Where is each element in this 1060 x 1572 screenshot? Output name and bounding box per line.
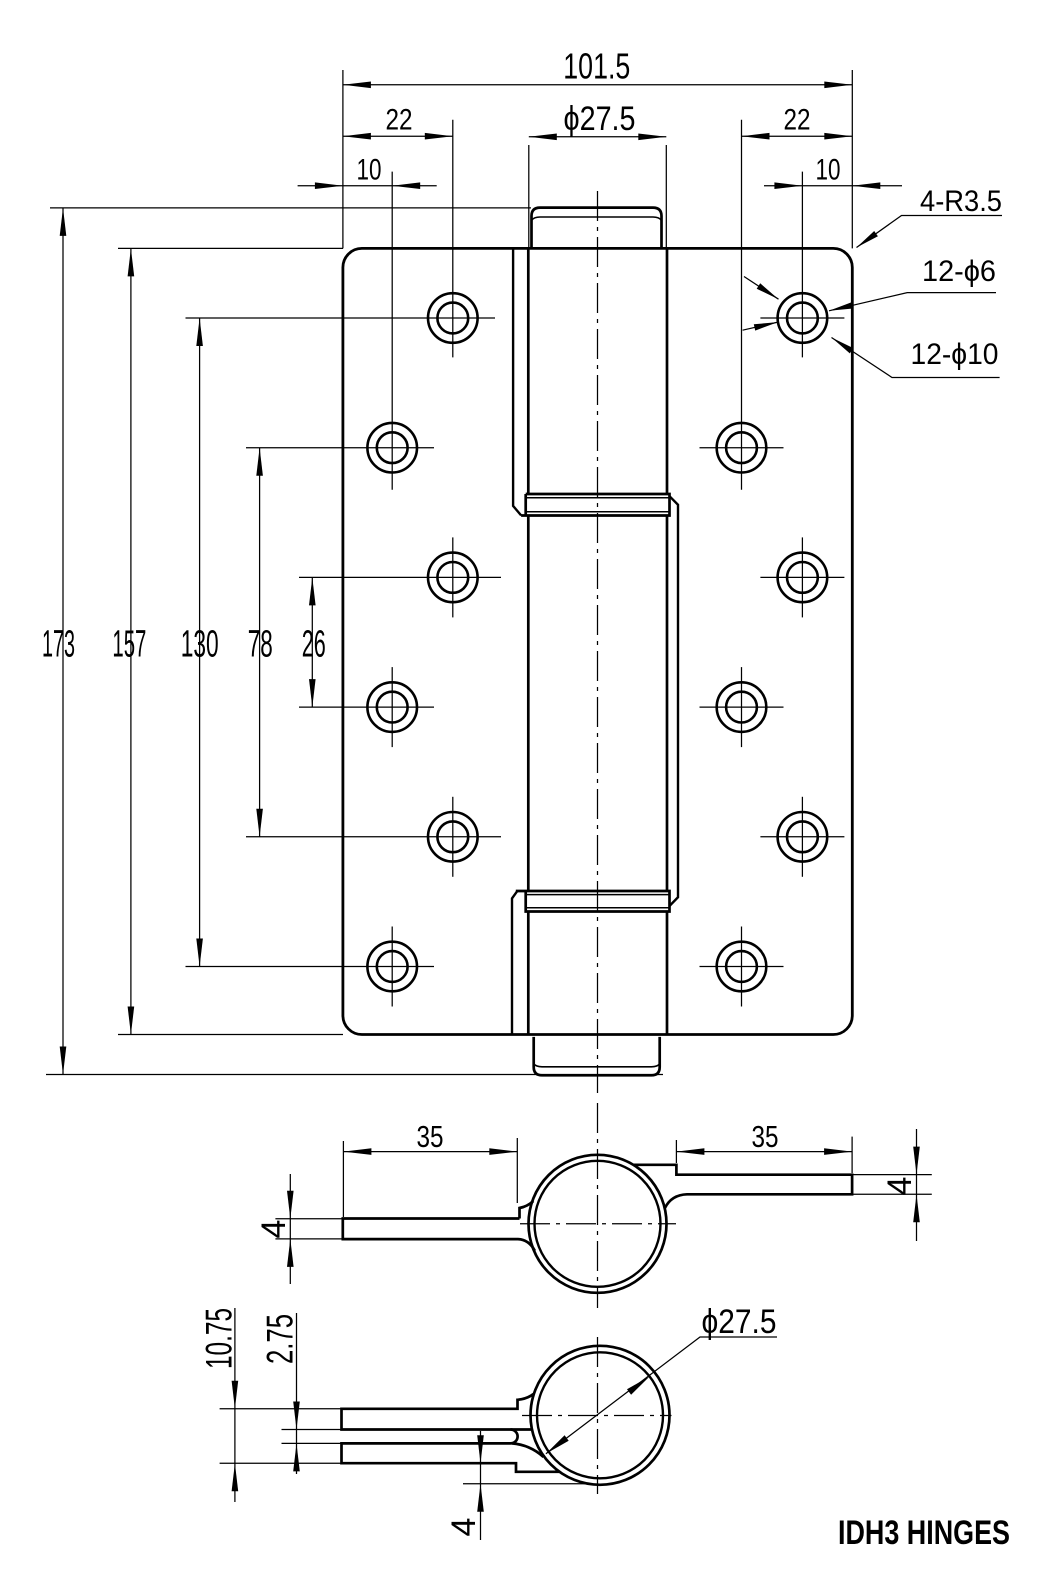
screw hole right row1 bbox=[778, 293, 828, 343]
barrel middle knuckle right edge bbox=[666, 516, 669, 892]
barrel bottom knuckle left edge bbox=[527, 912, 530, 1035]
centerline middle view horizontal bbox=[520, 1223, 676, 1225]
barrel lower ring band bbox=[516, 891, 670, 912]
dimension 157 line bbox=[130, 248, 132, 1034]
extension line phi27.5 right vertical bbox=[665, 145, 667, 247]
hole cross vertical left row5 bbox=[452, 797, 454, 877]
svg-text:22: 22 bbox=[386, 104, 413, 137]
barrel top knuckle right edge bbox=[666, 248, 669, 494]
svg-text:IDH3 HINGES: IDH3 HINGES bbox=[838, 1514, 1010, 1552]
screw hole left row3 bbox=[428, 553, 478, 603]
hole cross horizontal right row5 bbox=[760, 836, 844, 838]
extension line right leaf edge vertical bbox=[851, 70, 853, 248]
dimension 130 arrows bbox=[196, 318, 203, 346]
hole cross vertical right row5 bbox=[801, 797, 803, 877]
screw hole left row2 bbox=[367, 423, 417, 473]
screw hole right row6 bbox=[717, 942, 767, 992]
dimension 10 left line bbox=[298, 185, 437, 187]
dimension 157 arrows bbox=[128, 248, 135, 276]
barrel bottom knuckle right edge bbox=[666, 912, 669, 1035]
extension line 4R bottom bbox=[852, 1193, 932, 1195]
screw hole left row5 bbox=[428, 812, 478, 862]
svg-text:130: 130 bbox=[181, 624, 219, 666]
leader 12-phi6 line bbox=[829, 293, 996, 311]
leader 12-phi10 far arrow bbox=[757, 283, 779, 299]
svg-text:4: 4 bbox=[881, 1177, 919, 1196]
extension line 35L right vertical bbox=[516, 1138, 518, 1203]
extension line 173 bottom bbox=[46, 1074, 663, 1076]
barrel top cap bbox=[532, 208, 662, 249]
svg-text:26: 26 bbox=[302, 624, 326, 666]
screw hole left row4 bbox=[367, 682, 417, 732]
barrel upper ring band inner lines bbox=[527, 497, 669, 499]
svg-text:4: 4 bbox=[255, 1220, 293, 1239]
dimension 130 line bbox=[199, 318, 201, 967]
extension line 157 top bbox=[118, 247, 343, 249]
hole cross vertical left row3 bbox=[452, 537, 454, 617]
middle view left leaf bbox=[343, 1201, 535, 1251]
leader phi27.5 bottom arrow lower bbox=[546, 1435, 569, 1453]
extension line col10 left vertical bbox=[391, 172, 393, 490]
dimension 22 right line bbox=[742, 135, 853, 137]
extension line 4L top bbox=[275, 1218, 342, 1220]
hole cross horizontal right row4 bbox=[700, 706, 784, 708]
dimension 35 right arrows bbox=[676, 1148, 704, 1155]
dimension 78 arrows bbox=[256, 448, 263, 476]
dimension 173 line bbox=[62, 208, 64, 1075]
svg-text:78: 78 bbox=[248, 624, 273, 666]
extension line 78 top / hole row2 axis bbox=[246, 447, 434, 449]
svg-text:35: 35 bbox=[752, 1119, 779, 1154]
dimension phi27.5 arrows bbox=[529, 134, 557, 141]
extension line col22 left vertical bbox=[452, 120, 454, 358]
dimension 78 line bbox=[259, 448, 261, 837]
dimension 10.75 arrows bbox=[232, 1381, 239, 1409]
extension line 4L bottom bbox=[275, 1238, 342, 1240]
dimension 35 left line bbox=[343, 1151, 517, 1153]
svg-text:173: 173 bbox=[42, 624, 75, 666]
leader phi27.5 bottom line bbox=[546, 1337, 777, 1454]
middle view barrel outer circle bbox=[529, 1155, 667, 1293]
leader 12-phi10 far segment bbox=[744, 277, 779, 300]
svg-text:35: 35 bbox=[417, 1119, 444, 1154]
svg-text:4-R3.5: 4-R3.5 bbox=[920, 185, 1002, 218]
extension line 26 bottom / hole row4 axis bbox=[299, 706, 434, 708]
dimension 2.75 arrows bbox=[293, 1402, 300, 1430]
dimension 173 arrows bbox=[60, 208, 67, 236]
dimension 4 left line bbox=[289, 1174, 291, 1284]
extension line 35R left vertical bbox=[675, 1140, 677, 1163]
extension line col10 right vertical bbox=[801, 172, 803, 358]
dimension 101.5 line bbox=[343, 84, 852, 86]
bottom view barrel outer circle bbox=[531, 1346, 670, 1485]
svg-text:4: 4 bbox=[445, 1518, 483, 1537]
svg-text:22: 22 bbox=[784, 104, 811, 137]
dimension 22 left arrows bbox=[343, 133, 371, 140]
hole cross horizontal right row2 bbox=[700, 447, 784, 449]
extension line 130 bottom / hole row6 axis bbox=[186, 966, 435, 968]
svg-text:2.75: 2.75 bbox=[260, 1314, 301, 1364]
extension line left leaf edge vertical bbox=[342, 70, 344, 248]
left leaf knuckle gap line top bbox=[513, 248, 521, 515]
extension line 2.75 bottom bbox=[282, 1442, 342, 1444]
svg-text:ϕ27.5: ϕ27.5 bbox=[702, 1303, 777, 1341]
barrel top knuckle left edge bbox=[527, 248, 530, 494]
extension line 4R top bbox=[852, 1174, 932, 1176]
dimension 2.75 line bbox=[296, 1313, 298, 1474]
dimension 22 right arrows bbox=[742, 133, 770, 140]
barrel upper ring band bbox=[521, 494, 669, 516]
leader 12-phi6 arrow bbox=[829, 302, 853, 311]
middle view barrel inner circle bbox=[535, 1161, 661, 1287]
extension line 4 bottom ref bbox=[463, 1483, 585, 1485]
barrel lower ring band inner lines bbox=[527, 894, 669, 896]
extension line 35L left vertical bbox=[342, 1141, 344, 1217]
hole cross vertical right row3 bbox=[801, 537, 803, 617]
extension line 10.75 bottom bbox=[220, 1462, 342, 1464]
svg-text:10: 10 bbox=[816, 154, 841, 187]
dimension 35 right line bbox=[676, 1151, 852, 1153]
hole cross horizontal right row1 bbox=[760, 317, 844, 319]
dimension 10 right arrows bbox=[774, 182, 802, 189]
dimension 10 right line bbox=[764, 185, 902, 187]
dimension 35 left arrows bbox=[343, 1148, 371, 1155]
leader 12-phi6 far segment bbox=[743, 322, 778, 330]
leader 12-phi6 far arrow bbox=[754, 322, 778, 331]
leader phi27.5 bottom arrow upper bbox=[627, 1376, 650, 1394]
extension line col22 right vertical bbox=[741, 120, 743, 490]
screw hole right row5 bbox=[778, 812, 828, 862]
centerline bottom view vertical bbox=[597, 1337, 599, 1494]
bottom view upper leaf bbox=[342, 1394, 534, 1430]
hole cross horizontal right row6 bbox=[700, 966, 784, 968]
barrel top cap seam bbox=[532, 217, 661, 220]
dimension 26 arrows bbox=[309, 577, 316, 605]
dimension 4 right arrows bbox=[913, 1147, 920, 1175]
bottom view lower leaf bbox=[342, 1443, 560, 1471]
leader 12-phi10 line bbox=[832, 338, 1000, 378]
dimension 101.5 arrows bbox=[343, 82, 371, 89]
svg-text:101.5: 101.5 bbox=[563, 46, 630, 87]
hole cross vertical left row6 bbox=[391, 927, 393, 1007]
right leaf knuckle gap line middle bbox=[670, 496, 679, 905]
hole cross horizontal right row3 bbox=[760, 576, 844, 578]
svg-text:10.75: 10.75 bbox=[199, 1308, 240, 1369]
svg-text:ϕ27.5: ϕ27.5 bbox=[564, 100, 636, 138]
svg-text:12-ϕ10: 12-ϕ10 bbox=[911, 338, 999, 371]
svg-text:157: 157 bbox=[112, 624, 146, 666]
dimension 26 line bbox=[311, 577, 313, 707]
extension line 2.75 top bbox=[282, 1429, 342, 1431]
dimension 22 left line bbox=[343, 135, 453, 137]
dimension 10 left arrows bbox=[315, 182, 343, 189]
dimension phi27.5 line bbox=[529, 136, 667, 138]
extension line 130 top / hole row1 axis bbox=[186, 317, 496, 319]
screw hole left row6 bbox=[367, 942, 417, 992]
extension line 173 top bbox=[50, 207, 531, 209]
leader 4-R3.5 line bbox=[857, 216, 1003, 248]
barrel middle knuckle left edge bbox=[527, 516, 530, 892]
dimension 4 right line bbox=[916, 1129, 918, 1241]
screw hole left row1 bbox=[428, 293, 478, 343]
extension line 10.75 top bbox=[220, 1408, 342, 1410]
bottom view slot rounded end bbox=[511, 1430, 518, 1444]
extension line 35R right vertical bbox=[851, 1137, 853, 1173]
screw hole right row2 bbox=[717, 423, 767, 473]
extension line 157 bottom bbox=[118, 1034, 343, 1036]
svg-text:10: 10 bbox=[357, 154, 382, 187]
leader 12-phi10 arrow bbox=[832, 338, 854, 354]
middle view right leaf bbox=[633, 1165, 852, 1208]
centerline main barrel bbox=[597, 191, 599, 1093]
hole cross vertical right row4 bbox=[741, 667, 743, 747]
barrel bottom cap bbox=[534, 1037, 660, 1075]
svg-text:12-ϕ6: 12-ϕ6 bbox=[922, 255, 996, 288]
centerline middle view vertical bbox=[597, 1103, 599, 1308]
dimension 4 bottom line bbox=[480, 1431, 482, 1540]
screw hole right row4 bbox=[717, 682, 767, 732]
screw hole right row3 bbox=[778, 553, 828, 603]
bottom view barrel inner circle bbox=[537, 1352, 663, 1478]
left leaf knuckle gap line bottom bbox=[512, 891, 517, 1034]
extension line phi27.5 left vertical bbox=[528, 145, 530, 247]
dimension 4 left arrows bbox=[287, 1191, 294, 1219]
hole cross vertical right row6 bbox=[741, 927, 743, 1007]
dimension 10.75 line bbox=[234, 1308, 236, 1502]
extension line 78 bottom / hole row5 axis bbox=[246, 836, 501, 838]
leader 4-R3.5 arrow bbox=[857, 231, 878, 248]
barrel bottom cap seam bbox=[534, 1064, 660, 1067]
centerline bottom view horizontal bbox=[522, 1415, 672, 1417]
extension line 26 top / hole row3 axis bbox=[299, 576, 501, 578]
dimension 4 bottom arrows bbox=[477, 1435, 484, 1463]
hinge leaf plates outline bbox=[343, 248, 852, 1034]
hole cross vertical left row4 bbox=[391, 667, 393, 747]
